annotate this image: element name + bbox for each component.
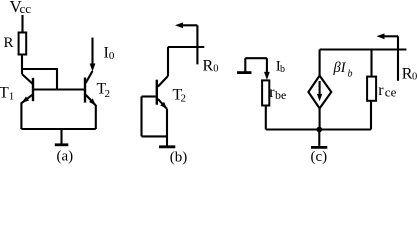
svg-text:2: 2 xyxy=(105,88,111,100)
svg-text:0: 0 xyxy=(213,64,218,75)
svg-text:(b): (b) xyxy=(170,150,188,166)
svg-text:βI: βI xyxy=(333,60,347,76)
svg-text:r: r xyxy=(378,82,384,99)
svg-text:(a): (a) xyxy=(57,148,74,164)
svg-text:ce: ce xyxy=(385,84,397,99)
svg-text:b: b xyxy=(348,69,353,80)
svg-text:1: 1 xyxy=(9,91,15,103)
svg-text:T: T xyxy=(0,85,9,102)
svg-text:cc: cc xyxy=(20,1,32,16)
svg-text:(c): (c) xyxy=(311,149,328,165)
svg-text:R: R xyxy=(4,35,14,51)
svg-text:b: b xyxy=(280,64,285,75)
svg-text:0: 0 xyxy=(412,72,417,83)
svg-text:0: 0 xyxy=(109,50,115,62)
svg-text:R: R xyxy=(203,57,214,74)
svg-text:be: be xyxy=(275,88,286,102)
svg-text:2: 2 xyxy=(181,93,187,105)
